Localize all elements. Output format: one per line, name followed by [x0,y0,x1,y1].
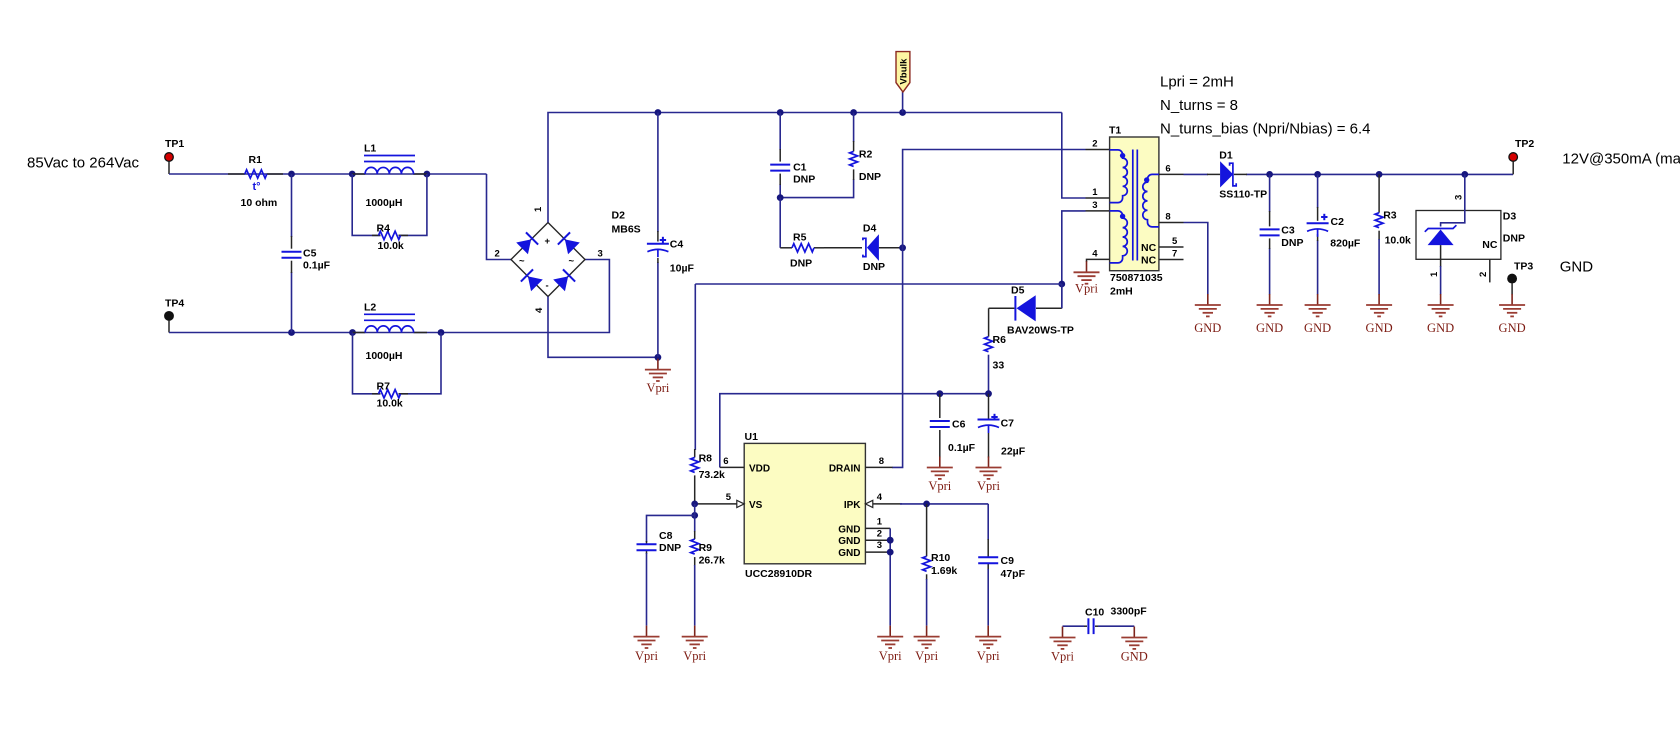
svg-text:D3: D3 [1503,211,1517,223]
capacitor C8 leads [646,541,648,554]
U1 DRAIN pin stub [865,466,892,468]
svg-text:Vpri: Vpri [683,649,706,663]
svg-text:N_turns = 8: N_turns = 8 [1160,97,1238,114]
transformer T1 pin8 stub [1159,222,1184,224]
svg-text:GND: GND [1256,321,1283,335]
svg-text:C1: C1 [793,162,807,174]
transformer T1 pin1 stub [1086,197,1110,199]
svg-text:GND: GND [838,524,860,535]
resistor R3 zigzag [1375,213,1383,228]
svg-text:~: ~ [569,256,575,267]
svg-text:R3: R3 [1383,209,1397,221]
svg-text:R10: R10 [931,552,950,564]
capacitor C3 plates [1260,229,1280,235]
wire TP1 stub [168,162,170,175]
svg-text:DNP: DNP [1503,233,1525,245]
diode D3 TVS box [1416,211,1501,260]
capacitor C10 Y-cap row [1063,625,1135,627]
svg-text:3: 3 [598,249,603,260]
inductor L2 leads [353,332,428,334]
svg-text:1: 1 [533,206,544,212]
svg-text:NC: NC [1482,239,1498,251]
svg-text:TP2: TP2 [1515,138,1534,150]
svg-text:Vpri: Vpri [646,381,669,395]
junction dot C3 top [1266,171,1273,178]
junction dot bias D5 pin3 [1058,281,1065,288]
svg-text:12V@350mA (max): 12V@350mA (max) [1562,151,1680,168]
D3 pin2 stub [1489,259,1491,282]
U1 IPK pin stub and arrow [865,500,902,507]
junction dot L2 left [349,329,356,336]
resistor R10 zigzag [923,556,931,571]
svg-text:D1: D1 [1219,150,1233,162]
svg-text:GND: GND [1304,321,1331,335]
capacitor C10 plates [1084,618,1098,634]
resistor R7 zigzag [379,390,401,398]
svg-text:R7: R7 [377,381,391,393]
svg-text:7: 7 [1172,249,1177,260]
svg-text:GND: GND [1427,321,1454,335]
capacitor C2 wire [1317,174,1319,294]
wire GND pins down [889,528,891,625]
wire D5 cathode down to R6 [988,308,990,336]
svg-text:C7: C7 [1001,417,1015,429]
U1 VDD pin stub [720,466,744,468]
svg-text:DNP: DNP [793,174,815,186]
resistor R8 zigzag [691,457,699,472]
inductor L1 leads [352,173,427,175]
junction dot C2 top [1314,171,1321,178]
U1 GND pin stubs [865,528,890,552]
ground Vpri at T1 pin4 [1074,261,1100,295]
inductor L2 core lines [364,314,415,320]
svg-text:GND: GND [838,548,860,559]
junction dot C1 top [777,109,784,116]
wire R5 to D4 [824,247,862,249]
svg-text:2mH: 2mH [1110,286,1133,298]
svg-text:BAV20WS-TP: BAV20WS-TP [1007,325,1074,337]
svg-text:Vpri: Vpri [879,649,902,663]
wire VDD feed line [720,394,989,468]
capacitor C9 wire [987,504,989,540]
resistor R9 zigzag [691,539,699,554]
wire C8 to ground [646,553,648,626]
svg-text:2: 2 [877,528,882,539]
resistor R2 zigzag [850,151,858,166]
svg-text:73.2k: 73.2k [699,469,725,481]
svg-text:GND: GND [1121,650,1148,664]
wire D5 anode up to bias junction [1061,284,1063,308]
transformer T1 secondary winding [1143,174,1159,226]
wire bottom AC line from TP4 to bridge pin3 [169,260,609,333]
junction dot D3 TP2 [1461,171,1468,178]
svg-text:+: + [545,236,551,247]
resistor R7 leads [372,393,408,395]
svg-text:2: 2 [495,249,500,260]
svg-text:8: 8 [1165,212,1170,223]
wire TP3 stub [1511,283,1513,295]
svg-text:Vbulk: Vbulk [899,58,910,85]
junction dot C1 R2 bottom [777,194,784,201]
wire top AC line from TP1 to bridge pin2 [169,174,511,260]
svg-text:6: 6 [1165,163,1170,174]
svg-text:2: 2 [1478,272,1489,277]
svg-text:R2: R2 [859,149,873,161]
inductor L2 coil [365,326,413,333]
transformer T1 bias winding [1110,211,1128,263]
svg-text:5: 5 [1172,236,1178,247]
ground Vpri at C10 left [1050,627,1076,664]
label plus C7 [991,414,997,420]
wire R4 damping loop [352,174,427,235]
bridge D2 diode top-right [558,232,580,254]
svg-text:D4: D4 [863,222,877,234]
wire TP4 stub [168,320,170,332]
svg-text:Vpri: Vpri [1075,281,1098,295]
svg-text:Vpri: Vpri [928,479,951,493]
resistor R5 zigzag [792,244,814,252]
svg-text:R5: R5 [793,232,807,244]
svg-text:GND: GND [1499,321,1526,335]
junction dot L2 right [438,329,445,336]
svg-text:Vpri: Vpri [977,649,1000,663]
wire bias line to R8 [695,283,1062,285]
junction dot C4 bottom [655,354,662,361]
wire VS node down through R9 [694,504,696,532]
resistor R4 zigzag [379,231,401,239]
capacitor C5 leads [291,236,293,273]
wire R10 to ground [926,579,928,626]
resistor R2 branch wire [780,113,853,198]
diode D4 zener DNP [863,234,903,261]
svg-text:T1: T1 [1109,125,1121,137]
junction dot L1 left [349,171,356,178]
bridge D2 diamond outline [511,223,585,297]
svg-text:VS: VS [749,500,763,511]
resistor R6 zigzag [985,337,993,352]
capacitor C1 plates [770,165,790,171]
junction dot C5 bottom [288,329,295,336]
ground GND at TP3 [1499,294,1526,335]
ground GND at C3 [1256,294,1283,335]
svg-text:C9: C9 [1001,555,1015,567]
junction dot C4 top [655,109,662,116]
transformer T1 pin4 stub [1087,259,1110,262]
resistor R8 wire [694,284,696,450]
junction dot VS node [691,501,698,508]
junction dot GND pin3 [887,549,894,556]
wire R3 to ground [1378,239,1380,295]
capacitor C8 plates [637,544,657,550]
ground GND at pin8 [1194,294,1221,335]
junction dot C5 top [288,171,295,178]
svg-text:3300pF: 3300pF [1111,606,1148,618]
svg-text:t°: t° [253,181,261,193]
resistor R3 leads [1378,174,1380,240]
wire R7 damping loop [353,333,442,394]
svg-text:820µF: 820µF [1330,237,1361,249]
wire D3 pin1 to ground [1440,266,1442,295]
svg-text:Vpri: Vpri [977,479,1000,493]
svg-text:750871035: 750871035 [1110,272,1163,284]
svg-text:47pF: 47pF [1001,568,1026,580]
svg-text:GND: GND [1366,321,1393,335]
junction dot IPK R10 [923,501,930,508]
svg-text:C4: C4 [670,238,684,250]
svg-text:1: 1 [1429,271,1440,277]
capacitor C1 leads [779,149,781,185]
svg-text:26.7k: 26.7k [699,555,725,567]
svg-text:DNP: DNP [1281,237,1303,249]
ground Vpri at R9 [682,626,708,663]
svg-text:DRAIN: DRAIN [829,463,861,474]
wire C9 to ground [987,569,989,626]
resistor R10 leads [926,504,928,580]
wire drain column T1 pin2 to U1 DRAIN [892,150,1086,468]
wire T1 pin3 to bias junction [1062,211,1086,308]
svg-text:D2: D2 [612,210,626,222]
capacitor C4 branch wires [657,113,659,358]
svg-text:22µF: 22µF [1001,445,1026,457]
svg-text:4: 4 [534,307,545,313]
svg-text:85Vac to 264Vac: 85Vac to 264Vac [27,155,140,172]
svg-text:DNP: DNP [859,171,881,183]
ground Vpri at C9 [975,626,1001,663]
wire bridge minus to Vpri rail [548,297,658,358]
svg-text:~: ~ [519,256,525,267]
capacitor C3 wire [1269,174,1271,294]
node TP4 test point [165,298,185,321]
node TP1 test point [165,138,185,161]
svg-text:VDD: VDD [749,463,770,474]
svg-text:-: - [546,281,549,292]
resistor R2 leads [853,141,855,180]
svg-text:TP1: TP1 [165,138,184,150]
svg-text:L1: L1 [364,143,376,155]
svg-text:R1: R1 [249,154,263,166]
svg-text:D5: D5 [1011,284,1025,296]
U1 VS pin stub and arrow [695,500,745,507]
bridge D2 diode top-left [516,232,538,254]
svg-text:C6: C6 [952,418,966,430]
inductor L1 core lines [364,156,415,162]
svg-text:10.0k: 10.0k [1385,235,1411,247]
junction dot R2 top [850,109,857,116]
capacitor C9 plates [978,557,998,563]
svg-text:10.0k: 10.0k [378,240,404,252]
svg-text:Vpri: Vpri [635,649,658,663]
transformer T1 primary winding [1110,150,1128,203]
ground GND at C10 right [1121,627,1148,664]
resistor R9 leads [694,531,696,566]
svg-text:3: 3 [1092,200,1097,211]
svg-text:10µF: 10µF [670,262,695,274]
junction dot C7 top [985,390,992,397]
wire D3 pin3 from output row [1441,174,1465,226]
svg-text:Vpri: Vpri [1051,650,1074,664]
capacitor C7 polarized [978,420,1000,434]
ground Vpri at R10 [914,626,940,663]
transformer T1 pin7 stub NC [1159,259,1184,261]
svg-text:Lpri = 2mH: Lpri = 2mH [1160,74,1234,91]
resistor R1 zigzag [245,170,267,178]
svg-text:10.0k: 10.0k [377,398,403,410]
svg-text:UCC28910DR: UCC28910DR [745,568,813,580]
svg-text:1000µH: 1000µH [366,350,403,362]
capacitor C9 leads [987,539,989,570]
svg-text:1: 1 [1092,187,1098,198]
svg-text:C10: C10 [1085,607,1104,619]
svg-text:GND: GND [838,536,860,547]
svg-text:10 ohm: 10 ohm [241,197,278,209]
bridge polarity marks [519,236,575,292]
capacitor C5 plates [282,252,302,258]
capacitor C8 wire [647,515,695,542]
diode D5 [989,295,1062,321]
capacitor C2 leads [1317,207,1319,241]
transformer T1 body [1110,137,1159,271]
ground GND at C2 [1304,294,1331,335]
capacitor C4 leads [657,231,659,263]
transformer T1 core lines [1133,150,1138,261]
transformer T1 pin2 stub [1086,149,1110,151]
capacitor C3 leads [1269,211,1271,249]
resistor R5 leads [780,247,824,249]
svg-text:U1: U1 [745,431,759,443]
transformer T1 pin5 stub NC [1159,246,1184,248]
ground GND at D3 [1427,294,1454,335]
junction dot D4 drain [899,244,906,251]
junction dot C6 top [936,390,943,397]
capacitor C6 plates [930,421,950,427]
svg-text:N_turns_bias (Npri/Nbias) = 6.: N_turns_bias (Npri/Nbias) = 6.4 [1160,121,1371,138]
svg-text:DNP: DNP [790,258,812,270]
ground Vpri at C6 [927,457,953,494]
ground Vpri at C8 [634,626,660,663]
svg-text:4: 4 [877,492,883,503]
capacitor C6 leads [939,394,941,458]
svg-text:GND: GND [1194,321,1221,335]
IC U1 body [744,443,865,563]
svg-text:5: 5 [726,492,732,503]
transformer T1 pin3 stub [1086,210,1110,212]
junction dot L1 right [424,171,431,178]
svg-text:33: 33 [993,359,1005,371]
svg-text:1: 1 [877,517,883,528]
label plus C2 [1321,214,1327,220]
svg-text:TP4: TP4 [165,298,184,310]
svg-text:1000µH: 1000µH [366,197,403,209]
junction dot GND pin2 [887,537,894,544]
wire IPK row [900,503,988,505]
svg-text:L2: L2 [364,302,376,314]
svg-text:R4: R4 [377,223,391,235]
svg-text:TP3: TP3 [1514,261,1533,273]
junction dot R3 top [1376,171,1383,178]
ground Vpri at C4 [645,359,671,395]
junction dot C8 tee [691,512,698,519]
capacitor C5 branch wire [291,174,293,333]
wire T1 pin8 to ground [1184,223,1208,295]
resistor R4 leads [372,234,408,236]
svg-text:C2: C2 [1331,216,1345,228]
wire from C1R2 junction down to R5 row [779,198,781,248]
capacitor C1 branch wire [779,113,781,198]
capacitor C2 polarized [1307,223,1329,237]
svg-text:3: 3 [1453,195,1464,200]
svg-text:C5: C5 [303,248,317,260]
junction dot Vbulk stub [899,109,906,116]
svg-text:SS110-TP: SS110-TP [1219,189,1267,201]
capacitor C4 polarized [647,244,669,258]
bridge D2 diode bottom-left [521,269,543,291]
wire TP2 stub [1512,162,1514,175]
svg-text:1.69k: 1.69k [931,565,957,577]
ground Vpri at U1 GND [877,626,903,663]
wire R9 to ground [694,565,696,626]
ground GND at R3 [1366,294,1393,335]
svg-text:3: 3 [877,540,882,551]
svg-text:R9: R9 [699,542,713,554]
svg-text:2: 2 [1092,139,1097,150]
resistor R8 leads [694,449,696,504]
transformer T1 pin6 stub [1159,173,1184,175]
wire bus drop to T1 pin1 [1062,113,1086,199]
diode D1 [1207,161,1247,187]
svg-text:NC: NC [1141,255,1157,267]
resistor R1 thermistor leads [228,173,283,175]
power flag Vbulk [896,52,910,113]
svg-text:6: 6 [723,456,728,467]
svg-text:MB6S: MB6S [612,224,641,236]
label plus C4 [660,237,666,243]
svg-text:DNP: DNP [659,542,681,554]
svg-text:R8: R8 [699,453,713,465]
svg-text:8: 8 [879,456,884,467]
node TP3 test point [1508,261,1534,283]
diode D3 zener element [1425,225,1457,267]
svg-text:NC: NC [1141,242,1157,254]
capacitor C7 leads [988,394,990,458]
svg-text:4: 4 [1092,248,1098,259]
svg-text:GND: GND [1560,259,1594,276]
svg-text:0.1µF: 0.1µF [303,260,331,272]
wire R6 bottom to VDD line [988,355,990,394]
svg-text:DNP: DNP [863,261,885,273]
svg-text:C8: C8 [659,530,673,542]
svg-text:0.1µF: 0.1µF [948,442,976,454]
ground Vpri at C7 [976,457,1002,494]
bridge D2 diode bottom-right [553,269,575,291]
svg-text:C3: C3 [1281,224,1295,236]
wire secondary output row [1184,173,1514,175]
inductor L1 coil [365,167,413,174]
svg-text:IPK: IPK [844,500,861,511]
svg-text:R6: R6 [993,334,1007,346]
node TP2 test point [1509,138,1535,161]
svg-text:Vpri: Vpri [915,649,938,663]
wire bridge plus output up to bus [548,113,1062,223]
